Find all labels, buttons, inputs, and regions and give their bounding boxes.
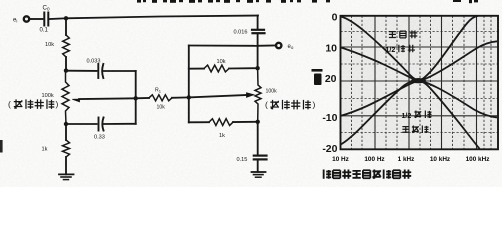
wire node D to R1 <box>136 97 149 99</box>
left margin mark <box>0 140 3 153</box>
node D junction dot (x136 wiper) <box>134 96 138 100</box>
grid major vertical lines <box>375 16 477 150</box>
resistor 1k bottom branch <box>209 119 233 126</box>
grid minor vertical lines <box>352 16 492 150</box>
wire top branch to node F <box>229 67 258 69</box>
node G junction dot <box>256 120 260 124</box>
paper speckle <box>0 0 502 187</box>
node F junction dot <box>255 66 259 70</box>
cut-off heading text at top edge <box>137 0 478 3</box>
curve half boost <box>341 41 497 80</box>
label 1/2提升 <box>386 47 396 54</box>
chart paper tint <box>341 16 499 150</box>
curve full cut <box>341 81 480 149</box>
curve full boost <box>341 16 478 81</box>
wire node E to right pot arrow <box>189 95 247 97</box>
grid major horizontal lines <box>341 47 499 116</box>
wire input to C0 <box>30 18 43 20</box>
capacitor C4 0.15 <box>254 155 267 157</box>
wire to ground <box>65 157 67 174</box>
ground left <box>59 173 74 175</box>
x axis labels <box>332 156 489 163</box>
wire node G down to C4 <box>257 122 259 156</box>
node A junction dot <box>64 16 68 20</box>
node knot <box>411 78 426 83</box>
wire right-loop vertical x189 <box>188 46 190 123</box>
node E junction dot <box>187 95 191 99</box>
wire C3 down through output node to node F <box>257 33 259 68</box>
potentiometer P1 100k body <box>62 71 69 124</box>
input terminal <box>24 16 29 21</box>
wire node B to C1 <box>66 70 97 72</box>
capacitor C2 0.33 <box>98 118 100 131</box>
wire top rail corner down to C3 <box>257 16 259 30</box>
wire node C down to R 1k <box>65 124 67 140</box>
capacitor C1 0.033 <box>97 64 99 78</box>
wire resistor to node B <box>65 57 67 71</box>
ground right <box>252 171 266 173</box>
wire C0 to node A <box>50 17 67 20</box>
wire bottom branch lead <box>189 121 209 123</box>
P1 label (对数特性) <box>8 99 59 109</box>
label 全提升 <box>389 32 396 38</box>
wire vertical x=136 <box>135 71 137 124</box>
node eo : output label <box>288 44 294 50</box>
chart border <box>341 16 499 150</box>
wire C4 to ground <box>257 159 259 171</box>
node C junction dot <box>64 122 68 126</box>
capacitor C3 0.016 <box>252 29 264 31</box>
resistor R 1k <box>63 140 70 157</box>
y axis labels <box>322 12 337 155</box>
wire output row left segment <box>189 45 258 47</box>
label 全衰减 <box>402 127 409 133</box>
P2 wiper arrow <box>247 93 254 98</box>
wire output node to terminal <box>258 45 275 47</box>
wire : top rail <box>66 16 258 19</box>
node ei : input label <box>13 18 17 24</box>
potentiometer P2 100k body <box>255 68 261 122</box>
wire top branch lead <box>189 68 204 70</box>
caption 低音和高音控制响应 <box>324 170 332 179</box>
label 1/2衰减 <box>402 113 412 120</box>
wire R1 to node E <box>172 96 189 98</box>
capacitor C0 <box>43 13 45 26</box>
wire C1 to right loop corner <box>104 70 136 72</box>
wire node C to C2 <box>66 123 97 125</box>
output terminal <box>276 43 281 48</box>
resistor R1 10k mid <box>149 95 172 101</box>
P1 wiper arrow <box>79 97 136 100</box>
resistor 10k left <box>63 35 70 57</box>
P2 label (对数特性) <box>265 100 316 110</box>
wire C2 to corner <box>104 123 136 125</box>
dB axis glyph <box>312 69 323 72</box>
resistor 10k top branch <box>204 65 229 72</box>
wire bottom branch to node G <box>233 121 258 123</box>
curve half cut <box>341 81 497 118</box>
wire node A down <box>65 18 67 35</box>
grid minor horizontal lines <box>341 32 499 133</box>
node B junction dot <box>64 68 68 72</box>
